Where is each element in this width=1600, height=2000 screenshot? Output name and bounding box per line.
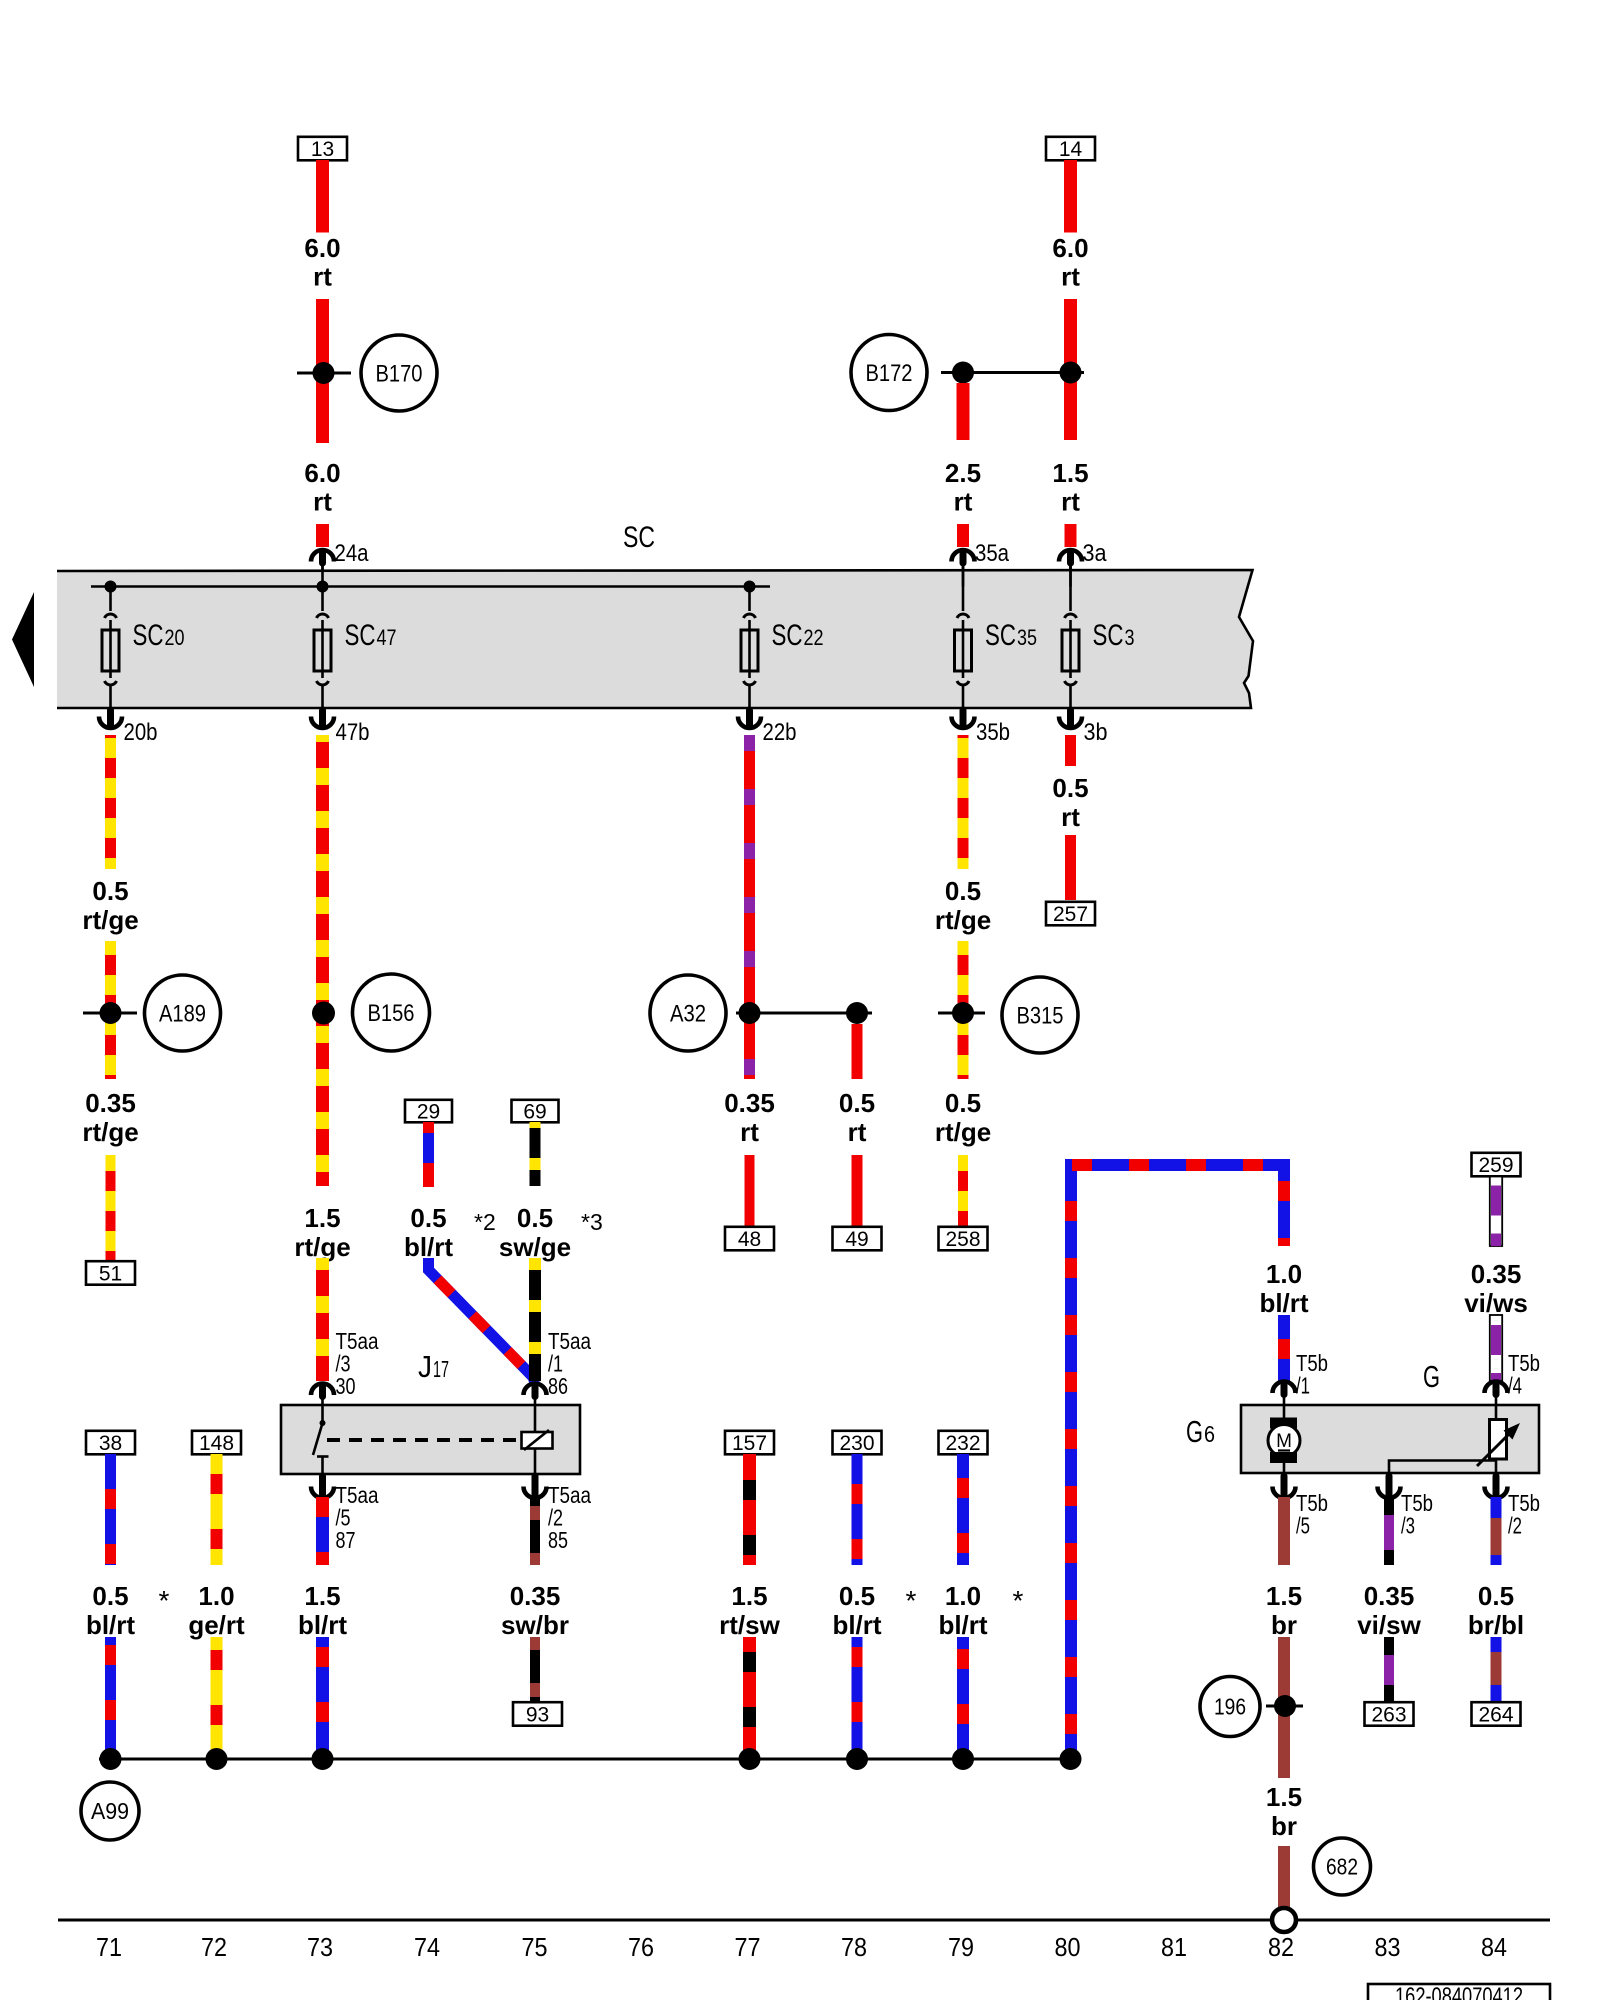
wire 1.5 bl/rt to ground bus	[316, 1637, 329, 1756]
ground bus junction node (track 77)	[739, 1748, 761, 1770]
fuse SC47	[321, 587, 324, 612]
svg-text:rt: rt	[1061, 262, 1080, 292]
relay actuation dashed line	[327, 1438, 521, 1442]
svg-text:3: 3	[1125, 625, 1135, 650]
svg-text:0.5: 0.5	[945, 876, 981, 906]
svg-text:78: 78	[841, 1932, 867, 1962]
svg-text:80: 80	[1055, 1932, 1081, 1962]
svg-text:B172: B172	[866, 360, 913, 387]
svg-text:*3: *3	[581, 1209, 603, 1235]
svg-text:3b: 3b	[1084, 719, 1108, 746]
svg-text:17: 17	[433, 1356, 449, 1382]
wire 0.35 vi/ws from 259	[1490, 1177, 1502, 1247]
svg-text:0.35: 0.35	[1471, 1259, 1522, 1289]
svg-text:M: M	[1276, 1431, 1292, 1452]
G box	[1241, 1405, 1539, 1473]
svg-text:49: 49	[845, 1228, 868, 1251]
wire 1.5 rt/sw from 157	[743, 1454, 756, 1565]
svg-text:682: 682	[1326, 1854, 1358, 1880]
svg-text:258: 258	[945, 1228, 980, 1251]
svg-text:rt/ge: rt/ge	[935, 905, 991, 935]
svg-text:47: 47	[377, 625, 397, 650]
svg-text:1.5: 1.5	[1266, 1581, 1302, 1611]
ground bus junction node (track 72)	[206, 1748, 228, 1770]
svg-text:SC: SC	[1093, 619, 1124, 652]
junction B172	[941, 371, 1084, 374]
connector 20b	[107, 710, 114, 725]
svg-text:bl/rt: bl/rt	[832, 1610, 881, 1640]
svg-text:G: G	[1423, 1359, 1440, 1394]
svg-text:/3: /3	[1401, 1513, 1415, 1539]
svg-text:bl/rt: bl/rt	[298, 1610, 347, 1640]
wire 6.0 rt from 14	[1064, 160, 1077, 233]
wire 0.5 rt/vi (track 77)	[744, 735, 755, 1079]
svg-text:82: 82	[1268, 1932, 1294, 1962]
svg-text:232: 232	[945, 1432, 980, 1455]
svg-text:B315: B315	[1017, 1002, 1064, 1029]
svg-text:/2: /2	[1508, 1513, 1522, 1539]
svg-text:79: 79	[948, 1932, 974, 1962]
svg-text:bl/rt: bl/rt	[86, 1610, 135, 1640]
svg-text:*: *	[906, 1585, 917, 1616]
svg-text:*: *	[159, 1585, 170, 1616]
svg-text:B170: B170	[376, 360, 423, 387]
wire 0.35 sw/br to 93	[530, 1637, 540, 1701]
svg-text:84: 84	[1481, 1932, 1507, 1962]
svg-text:0.35: 0.35	[1364, 1581, 1415, 1611]
svg-text:0.5: 0.5	[517, 1203, 553, 1233]
svg-text:30: 30	[336, 1373, 356, 1399]
wire 1.0 bl/rt (232) to ground bus	[957, 1637, 969, 1756]
svg-text:0.5: 0.5	[945, 1088, 981, 1118]
wire 1.5 rt/ge to J17 pin 30	[316, 1258, 329, 1381]
svg-text:SC: SC	[345, 619, 376, 652]
svg-text:A99: A99	[91, 1798, 129, 1824]
svg-text:6.0: 6.0	[304, 233, 340, 263]
connector 3a at SC	[1067, 554, 1074, 564]
svg-text:rt/ge: rt/ge	[82, 905, 138, 935]
svg-text:J: J	[418, 1349, 432, 1384]
svg-text:157: 157	[732, 1432, 767, 1455]
junction B315	[938, 1012, 985, 1015]
wire 0.35 vi/ws to pin T5b/4	[1490, 1315, 1502, 1381]
connector 24a at SC	[319, 554, 326, 564]
fuse SC22	[748, 587, 751, 612]
wire 1.0 bl/rt from 232	[957, 1454, 969, 1565]
diagram id box	[1368, 1984, 1550, 2000]
connector 47b	[319, 710, 326, 725]
svg-text:1.5: 1.5	[1052, 458, 1088, 488]
svg-text:G: G	[1186, 1414, 1203, 1449]
svg-text:3a: 3a	[1083, 540, 1108, 567]
svg-text:0.5: 0.5	[839, 1581, 875, 1611]
svg-text:148: 148	[199, 1432, 234, 1455]
svg-text:73: 73	[307, 1932, 333, 1962]
connector 22b	[746, 710, 753, 725]
svg-text:72: 72	[201, 1932, 227, 1962]
svg-text:SC: SC	[985, 619, 1016, 652]
wire 0.5 rt to 49	[852, 1155, 863, 1226]
svg-text:38: 38	[99, 1432, 122, 1455]
svg-text:48: 48	[738, 1228, 761, 1251]
relay switch contact	[321, 1405, 324, 1422]
svg-text:0.5: 0.5	[1478, 1581, 1514, 1611]
wire 6.0 rt to SC 24a	[316, 524, 329, 547]
wire 6.0 rt from 13	[316, 160, 329, 233]
svg-text:1.0: 1.0	[198, 1581, 234, 1611]
svg-text:rt: rt	[313, 262, 332, 292]
bus junction node (track 71)	[105, 581, 117, 593]
svg-text:35b: 35b	[976, 719, 1010, 746]
relay coil	[534, 1405, 537, 1432]
svg-text:93: 93	[526, 1704, 549, 1727]
wire 0.35 rt/ge to 51	[106, 1155, 116, 1260]
terminal box 259	[1472, 1153, 1521, 1177]
wire 0.5 bl/rt diagonal to pin 86	[429, 1258, 536, 1383]
svg-text:rt: rt	[313, 487, 332, 517]
svg-text:83: 83	[1375, 1932, 1401, 1962]
wire 0.5 rt/ge (track 71)	[105, 735, 116, 869]
terminal box 14	[1046, 137, 1095, 161]
wire 1.0 bl/rt (ground bus to G6)	[1071, 1165, 1284, 1759]
wire 0.35 rt to 48	[745, 1155, 755, 1226]
svg-text:6.0: 6.0	[1052, 233, 1088, 263]
svg-text:rt: rt	[954, 487, 973, 517]
svg-text:br/bl: br/bl	[1468, 1610, 1524, 1640]
svg-text:*2: *2	[474, 1209, 496, 1235]
ground bus junction node (track 71)	[100, 1748, 122, 1770]
terminal box 157	[725, 1431, 774, 1455]
terminal box 51	[86, 1261, 135, 1285]
svg-text:/5: /5	[1296, 1513, 1310, 1539]
terminal box 69	[512, 1100, 559, 1123]
connector T5b/1 at G	[1281, 1385, 1288, 1395]
svg-text:SC: SC	[623, 521, 655, 554]
connector 86 at J17	[532, 1387, 539, 1397]
svg-text:0.5: 0.5	[92, 876, 128, 906]
wire 1.5 rt/ge (track 73)	[316, 735, 329, 1186]
svg-text:20: 20	[165, 625, 185, 650]
ground bus wire	[99, 1758, 1071, 1761]
svg-text:*: *	[1013, 1585, 1024, 1616]
bus junction node (track 73)	[317, 581, 329, 593]
wire 0.5 bl/rt from 38	[105, 1454, 116, 1565]
junction A32	[736, 1012, 872, 1015]
terminal box 263	[1365, 1702, 1414, 1726]
svg-text:35a: 35a	[975, 540, 1010, 567]
wire 1.0 bl/rt to pin T5b/1	[1278, 1315, 1290, 1381]
connector 3b	[1067, 710, 1074, 725]
terminal box 13	[298, 137, 347, 161]
terminal box 257	[1046, 902, 1095, 926]
svg-text:1.5: 1.5	[304, 1203, 340, 1233]
connector 30 at J17	[319, 1387, 326, 1397]
wire 0.5 bl/rt (230) to ground bus	[852, 1637, 863, 1756]
svg-text:86: 86	[548, 1373, 568, 1399]
svg-text:2.5: 2.5	[945, 458, 981, 488]
svg-text:vi/sw: vi/sw	[1357, 1610, 1421, 1640]
wire 6.0 rt to B172	[1064, 299, 1077, 440]
wire 1.0 ge/rt to ground bus	[211, 1637, 223, 1756]
ground bus junction node (track 73)	[312, 1748, 334, 1770]
wire rt/ge to B315	[958, 941, 969, 1079]
terminal box 49	[833, 1227, 882, 1251]
wire 0.5 bl/rt from 230	[852, 1454, 863, 1565]
wire 0.35 sw/br from pin 85	[530, 1497, 540, 1565]
svg-text:22: 22	[804, 625, 824, 650]
svg-text:A32: A32	[670, 1000, 706, 1027]
ground symbol (track 82)	[1272, 1908, 1296, 1932]
svg-text:/1: /1	[1296, 1373, 1310, 1399]
svg-text:br: br	[1271, 1610, 1297, 1640]
svg-text:SC: SC	[772, 619, 803, 652]
wire 0.5 sw/ge from 69	[530, 1122, 541, 1186]
svg-text:vi/ws: vi/ws	[1464, 1288, 1528, 1318]
svg-text:rt/ge: rt/ge	[82, 1117, 138, 1147]
fuse SC35	[962, 566, 965, 611]
svg-text:196: 196	[1214, 1694, 1246, 1720]
wire 1.5 br to ground point	[1278, 1846, 1290, 1907]
ground point 682 marker	[1314, 1838, 1371, 1895]
svg-text:75: 75	[522, 1932, 548, 1962]
svg-text:0.5: 0.5	[410, 1203, 446, 1233]
svg-text:rt/ge: rt/ge	[935, 1117, 991, 1147]
svg-text:76: 76	[628, 1932, 654, 1962]
svg-text:0.35: 0.35	[724, 1088, 775, 1118]
svg-text:77: 77	[735, 1932, 761, 1962]
svg-text:SC: SC	[133, 619, 164, 652]
terminal box 258	[939, 1227, 988, 1251]
svg-text:47b: 47b	[336, 719, 370, 746]
terminal box 264	[1472, 1702, 1521, 1726]
relay J17 box	[281, 1405, 580, 1474]
svg-text:bl/rt: bl/rt	[938, 1610, 987, 1640]
svg-text:B156: B156	[368, 1000, 415, 1027]
svg-text:51: 51	[99, 1263, 122, 1286]
G internal wiper tap to T5b/3	[1389, 1461, 1496, 1475]
svg-text:sw/ge: sw/ge	[499, 1232, 571, 1262]
terminal box 93	[513, 1702, 562, 1726]
svg-text:263: 263	[1371, 1704, 1406, 1727]
wire 0.5 bl/rt (38) to ground bus	[105, 1637, 116, 1756]
svg-text:71: 71	[96, 1932, 122, 1962]
wire 0.5 rt/ge to 258	[958, 1155, 968, 1226]
svg-text:20b: 20b	[124, 719, 158, 746]
wire 0.5 rt/ge (track 79)	[958, 735, 969, 869]
terminal box 38	[86, 1431, 135, 1455]
wire rt/ge to A189	[105, 941, 116, 1079]
junction B156	[312, 1002, 335, 1025]
fuel pump motor G6	[1283, 1405, 1286, 1420]
connector 85 at J17	[532, 1476, 539, 1495]
fuse box SC band	[57, 570, 1253, 708]
svg-text:1.0: 1.0	[1266, 1259, 1302, 1289]
svg-text:rt/ge: rt/ge	[294, 1232, 350, 1262]
wire 1.5 br to junction 196	[1278, 1637, 1290, 1778]
wire 0.5 br/bl from T5b/2	[1491, 1497, 1502, 1565]
svg-text:257: 257	[1053, 903, 1088, 926]
bus line inside SC band	[91, 585, 770, 588]
svg-text:162-084070412: 162-084070412	[1395, 1983, 1523, 2000]
svg-text:ge/rt: ge/rt	[188, 1610, 245, 1640]
svg-text:bl/rt: bl/rt	[404, 1232, 453, 1262]
svg-text:6.0: 6.0	[304, 458, 340, 488]
wire 2.5 rt below B172	[957, 383, 970, 440]
wire 2.5 rt to SC 35a	[957, 524, 969, 547]
svg-text:22b: 22b	[763, 719, 797, 746]
svg-text:29: 29	[417, 1101, 440, 1124]
svg-text:rt: rt	[848, 1117, 867, 1147]
svg-text:69: 69	[523, 1101, 546, 1124]
wire 0.5 rt (track 80)	[1065, 735, 1076, 766]
junction B170	[297, 372, 351, 375]
ground bus junction node (track 79)	[952, 1748, 974, 1770]
svg-text:1.5: 1.5	[304, 1581, 340, 1611]
wire 1.5 bl/rt from pin 87	[316, 1497, 329, 1565]
svg-text:0.35: 0.35	[85, 1088, 136, 1118]
wire 0.5 rt to 257	[1065, 835, 1076, 900]
svg-text:sw/br: sw/br	[501, 1610, 569, 1640]
terminal box 148	[192, 1431, 241, 1455]
svg-text:0.5: 0.5	[839, 1088, 875, 1118]
wire 1.5 br from T5b/5	[1278, 1497, 1290, 1565]
wire 0.35 vi/sw from T5b/3	[1384, 1497, 1394, 1565]
svg-text:br: br	[1271, 1811, 1297, 1841]
fuel gauge sender (variable resistor)	[1495, 1405, 1498, 1420]
svg-text:0.5: 0.5	[1052, 773, 1088, 803]
svg-text:35: 35	[1017, 625, 1037, 650]
svg-text:6: 6	[1204, 1421, 1215, 1447]
svg-text:259: 259	[1478, 1154, 1513, 1177]
fuse SC3	[1069, 566, 1072, 611]
bus junction node (track 77)	[744, 581, 756, 593]
svg-text:87: 87	[336, 1527, 356, 1553]
svg-text:230: 230	[839, 1432, 874, 1455]
terminal box 230	[833, 1431, 882, 1455]
svg-text:264: 264	[1478, 1704, 1513, 1727]
svg-text:81: 81	[1161, 1932, 1187, 1962]
connector 35b	[960, 710, 967, 725]
ground bus junction node (track 78)	[846, 1748, 868, 1770]
connector T5b/5 at G	[1281, 1476, 1288, 1495]
svg-text:bl/rt: bl/rt	[1259, 1288, 1308, 1318]
svg-text:rt: rt	[740, 1117, 759, 1147]
svg-text:rt: rt	[1061, 487, 1080, 517]
svg-text:0.5: 0.5	[92, 1581, 128, 1611]
terminal box 48	[725, 1227, 774, 1251]
wire 1.5 rt to SC 3a	[1065, 524, 1077, 547]
junction 196	[1266, 1705, 1303, 1708]
wire 6.0 rt to B170	[316, 299, 329, 443]
continuation arrow (left)	[12, 592, 34, 687]
wire 0.35 vi/sw to 263	[1384, 1637, 1394, 1701]
wire 0.5 bl/rt from 29	[423, 1122, 434, 1187]
wire 1.5 rt/sw to ground bus	[743, 1637, 756, 1756]
ground designation A99	[81, 1782, 139, 1840]
track baseline	[58, 1919, 1550, 1922]
svg-text:rt/sw: rt/sw	[719, 1610, 780, 1640]
connector T5b/2 at G	[1493, 1476, 1500, 1495]
svg-text:1.5: 1.5	[731, 1581, 767, 1611]
wire 0.5 br/bl to 264	[1491, 1637, 1502, 1701]
terminal box 29	[405, 1100, 452, 1123]
svg-text:74: 74	[414, 1932, 440, 1962]
svg-text:14: 14	[1059, 138, 1083, 161]
terminal box 232	[939, 1431, 988, 1455]
svg-text:rt: rt	[1061, 802, 1080, 832]
svg-text:85: 85	[548, 1527, 568, 1553]
svg-text:13: 13	[311, 138, 334, 161]
svg-text:24a: 24a	[335, 540, 370, 567]
fuse SC20	[109, 587, 112, 612]
svg-text:/4: /4	[1508, 1373, 1522, 1399]
connector T5b/3 at G	[1386, 1476, 1393, 1495]
wire 0.5 rt below A32	[852, 1024, 863, 1079]
wire 1.0 ge/rt from 148	[211, 1454, 223, 1565]
connector T5b/4 at G	[1493, 1385, 1500, 1395]
ground bus junction node (track 80)	[1060, 1748, 1082, 1770]
connector 87 at J17	[319, 1476, 326, 1495]
svg-text:1.0: 1.0	[945, 1581, 981, 1611]
connector 35a at SC	[960, 554, 967, 564]
junction A189	[83, 1012, 137, 1015]
wire 0.5 sw/ge to pin 86	[529, 1258, 541, 1381]
svg-text:A189: A189	[159, 1000, 206, 1027]
svg-text:1.5: 1.5	[1266, 1782, 1302, 1812]
svg-text:0.35: 0.35	[510, 1581, 561, 1611]
